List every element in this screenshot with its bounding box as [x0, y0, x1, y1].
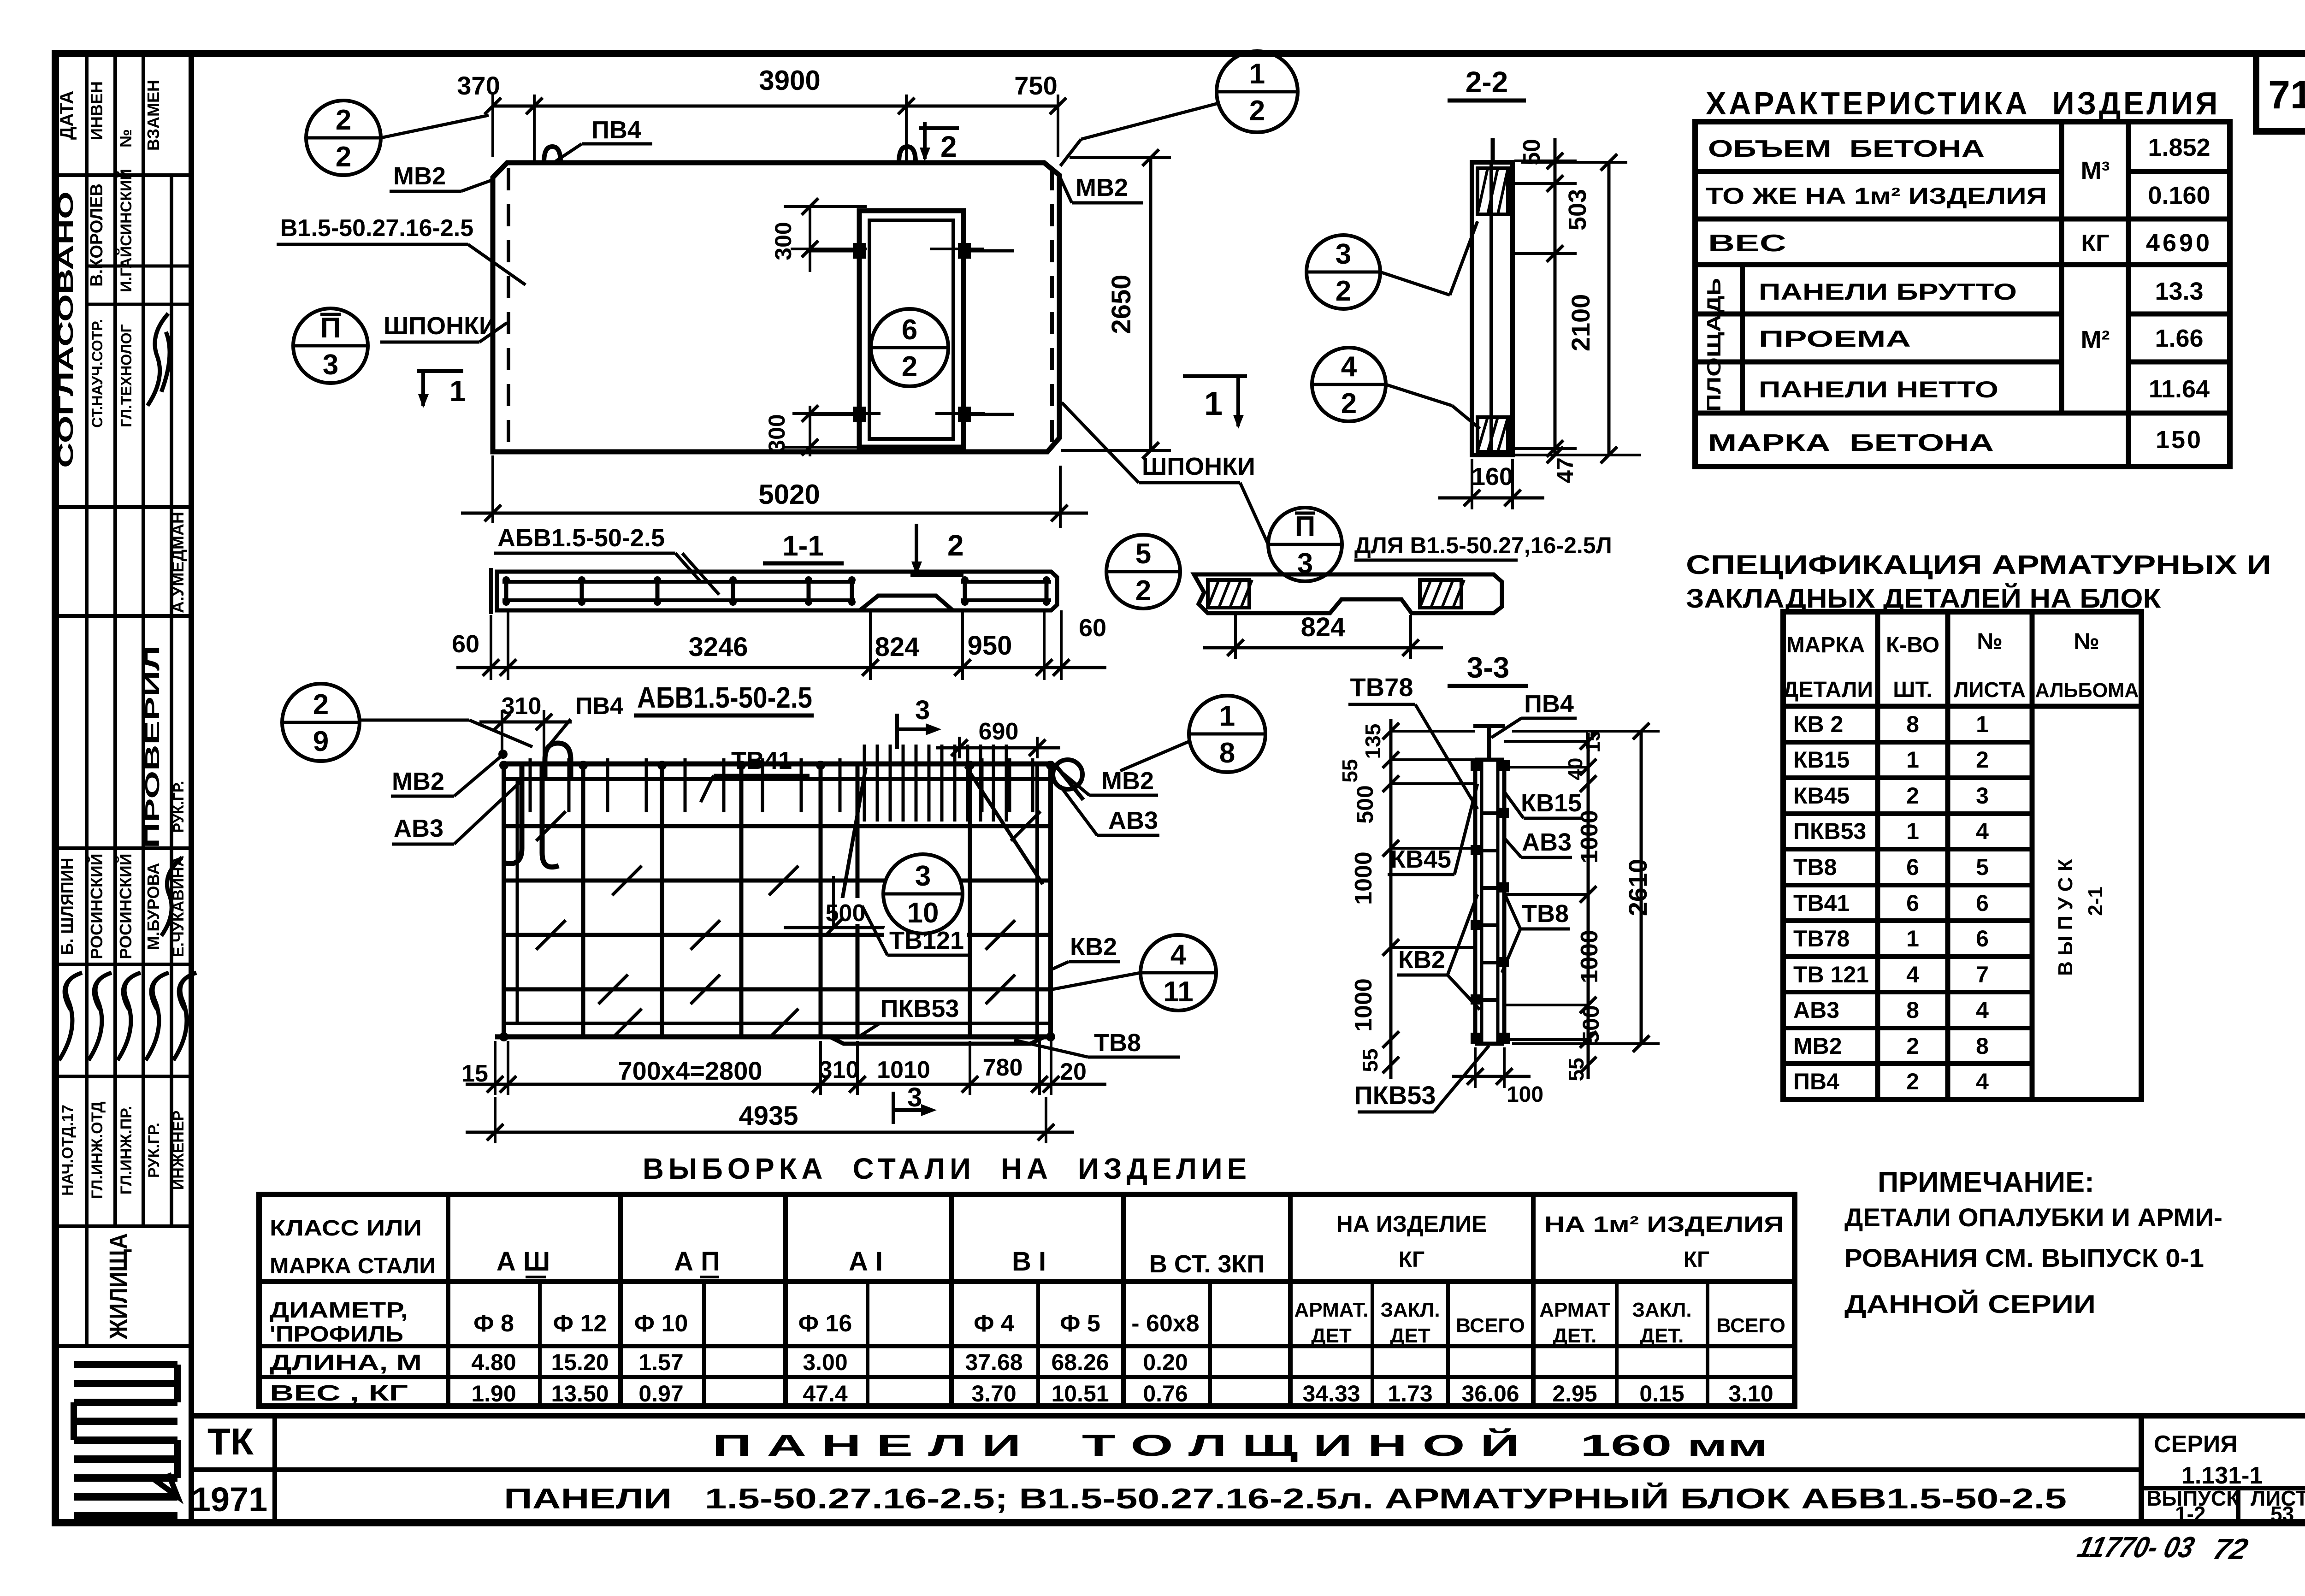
- top comb sparse: [529, 758, 532, 812]
- svg-text:М.БУРОВА: М.БУРОВА: [144, 863, 163, 950]
- svg-text:СТ.НАУЧ.СОТР.: СТ.НАУЧ.СОТР.: [89, 319, 106, 428]
- svg-text:В1.5-50.27.16-2.5: В1.5-50.27.16-2.5: [280, 215, 473, 242]
- callout 4/2: [1312, 348, 1386, 421]
- svg-text:68.26: 68.26: [1051, 1349, 1109, 1375]
- svg-text:15: 15: [1582, 730, 1604, 753]
- svg-text:В СТ. 3КП: В СТ. 3КП: [1149, 1250, 1265, 1278]
- grid bottom dims: [494, 1041, 496, 1095]
- svg-text:780: 780: [983, 1054, 1023, 1081]
- dim 4935: [494, 1097, 496, 1143]
- svg-text:ДАННОЙ СЕРИИ: ДАННОЙ СЕРИИ: [1844, 1289, 2096, 1318]
- label PKV53: [878, 996, 966, 1022]
- svg-text:МАРКА СТАЛИ: МАРКА СТАЛИ: [270, 1254, 436, 1278]
- svg-text:№: №: [1977, 628, 2003, 654]
- svg-text:ПКВ53: ПКВ53: [1793, 818, 1866, 844]
- 2-2 dims right: [1514, 160, 1577, 162]
- svg-text:ВСЕГО: ВСЕГО: [1716, 1314, 1785, 1337]
- 3-3 rungs: [1482, 811, 1498, 815]
- svg-text:ЖИЛИЩА: ЖИЛИЩА: [105, 1233, 132, 1340]
- svg-text:КВ45: КВ45: [1793, 783, 1850, 809]
- svg-text:АРМАТ.: АРМАТ.: [1294, 1299, 1369, 1321]
- svg-text:60: 60: [452, 630, 479, 658]
- svg-text:ПРИМЕЧАНИЕ:: ПРИМЕЧАНИЕ:: [1878, 1166, 2094, 1198]
- table: spetsifikatsiya: [1783, 612, 2141, 1099]
- svg-text:7: 7: [1976, 962, 1989, 987]
- svg-text:0.97: 0.97: [638, 1381, 683, 1407]
- svg-text:2: 2: [1341, 388, 1357, 420]
- svg-text:Б. ШЛЯПИН: Б. ШЛЯПИН: [58, 858, 77, 955]
- signatures row: [59, 973, 82, 1060]
- svg-text:М³: М³: [2081, 157, 2110, 184]
- svg-text:Ф 5: Ф 5: [1060, 1310, 1100, 1337]
- svg-text:АРМАТ: АРМАТ: [1539, 1299, 1610, 1321]
- svg-text:АБВ1.5-50-2.5: АБВ1.5-50-2.5: [497, 524, 665, 552]
- svg-text:ДЕТ.: ДЕТ.: [1553, 1324, 1597, 1347]
- svg-text:1: 1: [1906, 818, 1919, 844]
- svg-text:МВ2: МВ2: [1793, 1033, 1842, 1059]
- comb right sparse: [981, 758, 984, 812]
- svg-text:1.131-1: 1.131-1: [2181, 1462, 2263, 1489]
- svg-text:4: 4: [1341, 351, 1357, 383]
- svg-text:2: 2: [1976, 747, 1989, 773]
- svg-text:3: 3: [907, 1082, 922, 1112]
- keyway dashed line left: [507, 168, 510, 447]
- callout 4/11: [1141, 935, 1216, 1011]
- svg-text:АБВ1.5-50-2.5: АБВ1.5-50-2.5: [637, 681, 812, 714]
- svg-text:ВСЕГО: ВСЕГО: [1456, 1314, 1525, 1337]
- svg-text:10: 10: [907, 897, 939, 929]
- svg-text:2: 2: [1906, 1069, 1919, 1094]
- dim 310 top-left: [501, 710, 503, 758]
- svg-text:Е.ЧУКАВИНА: Е.ЧУКАВИНА: [170, 856, 187, 958]
- svg-text:1000: 1000: [1350, 851, 1377, 905]
- svg-text:СОГЛАСОВАНО: СОГЛАСОВАНО: [53, 191, 77, 468]
- svg-text:2: 2: [336, 141, 351, 173]
- opening anchor marks: [853, 243, 866, 259]
- svg-text:3.10: 3.10: [1728, 1381, 1773, 1407]
- svg-text:150: 150: [2156, 426, 2203, 454]
- svg-text:310: 310: [819, 1057, 859, 1083]
- svg-text:1.66: 1.66: [2155, 325, 2203, 352]
- svg-text:А.УМЕДМАН: А.УМЕДМАН: [168, 512, 187, 613]
- svg-text:2: 2: [1906, 1033, 1919, 1059]
- 3-3 right dims: [1587, 733, 1590, 1079]
- svg-text:А I: А I: [849, 1247, 883, 1277]
- svg-text:ПРОВЕРИЛ: ПРОВЕРИЛ: [141, 645, 164, 848]
- svg-text:П А Н Е Л И Т О Л Щ И Н О Й: П А Н Е Л И Т О Л Щ И Н О Й 160 мм: [712, 1428, 1768, 1462]
- svg-text:1: 1: [1906, 747, 1919, 773]
- svg-text:4: 4: [1976, 1069, 1989, 1094]
- svg-text:ШПОНКИ: ШПОНКИ: [1142, 453, 1255, 480]
- svg-text:370: 370: [457, 71, 500, 100]
- svg-text:700х4=2800: 700х4=2800: [618, 1056, 762, 1085]
- svg-text:ПАНЕЛИ БРУТТО: ПАНЕЛИ БРУТТО: [1759, 279, 2017, 305]
- callout II/3 left: [293, 308, 368, 383]
- svg-text:ДЕТ: ДЕТ: [1311, 1324, 1352, 1347]
- svg-text:20: 20: [1060, 1058, 1087, 1085]
- svg-text:5020: 5020: [758, 479, 820, 510]
- svg-text:П: П: [1295, 511, 1316, 543]
- svg-text:2-2: 2-2: [1466, 65, 1508, 99]
- reinforcement grid chords: [504, 762, 1051, 767]
- svg-text:АЛЬБОМА: АЛЬБОМА: [2035, 679, 2139, 702]
- grid left edge pair: [502, 764, 506, 1037]
- svg-text:КВ15: КВ15: [1521, 789, 1582, 817]
- svg-text:МВ2: МВ2: [1101, 767, 1154, 795]
- svg-text:6: 6: [902, 314, 917, 346]
- hatched embed left: [1208, 580, 1249, 608]
- svg-text:КГ: КГ: [2081, 230, 2109, 257]
- strip posts: [504, 577, 508, 605]
- svg-text:15.20: 15.20: [551, 1349, 609, 1375]
- dim 500 (grid): [823, 898, 874, 924]
- svg-text:НА 1м² ИЗДЕЛИЯ: НА 1м² ИЗДЕЛИЯ: [1544, 1212, 1784, 1237]
- svg-text:500: 500: [826, 900, 866, 927]
- svg-text:500: 500: [1578, 1005, 1604, 1043]
- svg-text:6: 6: [1976, 926, 1989, 952]
- callout 2/2: [306, 100, 381, 175]
- svg-text:13.3: 13.3: [2155, 278, 2203, 305]
- svg-text:1.90: 1.90: [471, 1381, 516, 1407]
- svg-text:1: 1: [1219, 700, 1235, 732]
- vertical dimension 2650: [1070, 156, 1171, 159]
- svg-text:8: 8: [1906, 711, 1919, 737]
- keyway dashed line right: [1050, 168, 1054, 447]
- svg-text:750: 750: [1014, 71, 1057, 100]
- svg-text:ПЛОЩАДЬ: ПЛОЩАДЬ: [1703, 278, 1725, 412]
- table: vyborka stali: [259, 1194, 1795, 1406]
- section mark 2 bottom: [915, 524, 918, 573]
- svg-text:РУК.ГР.: РУК.ГР.: [170, 781, 187, 833]
- section mark 1 left: [417, 369, 463, 373]
- svg-text:824: 824: [1301, 612, 1346, 642]
- svg-text:40: 40: [1564, 758, 1587, 780]
- svg-text:34.33: 34.33: [1302, 1381, 1360, 1407]
- svg-text:4: 4: [1906, 962, 1919, 987]
- svg-text:РОСИНСКИЙ: РОСИНСКИЙ: [87, 853, 106, 959]
- svg-text:950: 950: [968, 631, 1012, 661]
- signatures top: [148, 313, 170, 406]
- svg-text:1: 1: [449, 374, 466, 408]
- svg-text:100: 100: [1507, 1082, 1543, 1107]
- svg-text:10.51: 10.51: [1051, 1381, 1109, 1407]
- dim 2610: [1640, 731, 1643, 1044]
- svg-text:АВ3: АВ3: [394, 815, 443, 842]
- 3-3 column: [1473, 760, 1478, 1044]
- PV4 loop left: [545, 743, 571, 778]
- section mark 2 top: [919, 126, 959, 130]
- svg-text:3: 3: [1976, 783, 1989, 809]
- label TV121: [884, 928, 967, 953]
- svg-text:ТВ41: ТВ41: [1793, 890, 1850, 916]
- svg-text:1-2: 1-2: [2175, 1502, 2205, 1526]
- svg-text:№: №: [2074, 628, 2099, 654]
- svg-text:3.00: 3.00: [803, 1349, 847, 1375]
- svg-text:11770- 03: 11770- 03: [2074, 1531, 2198, 1564]
- svg-text:ДЕТАЛИ: ДЕТАЛИ: [1783, 678, 1873, 702]
- svg-text:4: 4: [1976, 818, 1989, 844]
- callout 1/2 top right: [1217, 51, 1298, 132]
- dimension 824 variant: [1234, 615, 1237, 659]
- variant strip outline: [1194, 574, 1502, 613]
- svg-text:2650: 2650: [1106, 274, 1136, 334]
- bottom dimension 5020: [491, 455, 494, 523]
- svg-text:503: 503: [1564, 189, 1591, 231]
- grid horizontal bars: [504, 824, 1051, 828]
- window opening: [859, 211, 963, 447]
- grid corner dots: [499, 761, 508, 770]
- svg-text:824: 824: [875, 632, 920, 662]
- svg-text:4690: 4690: [2146, 229, 2212, 257]
- section mark 1 right: [1183, 374, 1247, 378]
- strip inner chords: [502, 580, 855, 584]
- svg-text:2.95: 2.95: [1552, 1381, 1597, 1407]
- hatched embed right: [1420, 580, 1461, 608]
- svg-text:300: 300: [770, 222, 796, 260]
- svg-text:И.ГАЙСИНСКИЙ: И.ГАЙСИНСКИЙ: [117, 169, 135, 292]
- svg-text:ГЛ.ИНЖ.ОТД: ГЛ.ИНЖ.ОТД: [89, 1101, 106, 1199]
- svg-text:КВ15: КВ15: [1793, 747, 1850, 773]
- svg-text:135: 135: [1361, 724, 1385, 759]
- svg-text:КВ 2: КВ 2: [1793, 711, 1843, 737]
- svg-text:МАРКА: МАРКА: [1786, 633, 1865, 657]
- svg-text:ПВ4: ПВ4: [1793, 1069, 1839, 1094]
- svg-text:Ф 8: Ф 8: [473, 1310, 514, 1337]
- svg-text:В Ы П У С К: В Ы П У С К: [2054, 859, 2077, 976]
- svg-text:2: 2: [1906, 783, 1919, 809]
- svg-text:37.68: 37.68: [965, 1349, 1022, 1375]
- svg-text:ПАНЕЛИ НЕТТО: ПАНЕЛИ НЕТТО: [1759, 377, 1998, 402]
- svg-text:3: 3: [323, 349, 338, 381]
- svg-text:0.76: 0.76: [1143, 1381, 1188, 1407]
- svg-text:№: №: [116, 129, 135, 148]
- svg-text:ПВ4: ПВ4: [575, 693, 623, 720]
- svg-text:МВ2: МВ2: [392, 768, 444, 795]
- svg-text:'ПРОФИЛЬ: 'ПРОФИЛЬ: [270, 1322, 403, 1347]
- svg-text:МВ2: МВ2: [1076, 174, 1128, 201]
- svg-text:ТВ8: ТВ8: [1522, 900, 1569, 928]
- callout II/3 right: [1268, 508, 1342, 581]
- svg-text:ТО ЖЕ НА 1м² ИЗДЕЛИЯ: ТО ЖЕ НА 1м² ИЗДЕЛИЯ: [1706, 183, 2047, 209]
- svg-text:ТВ 121: ТВ 121: [1793, 962, 1869, 987]
- grid right edge pair: [1048, 764, 1053, 1037]
- section mark 3 bottom: [892, 1092, 895, 1124]
- svg-text:МВ2: МВ2: [393, 162, 446, 190]
- PV4 loop right coil: [1053, 760, 1082, 789]
- svg-text:ТВ41: ТВ41: [731, 747, 792, 774]
- svg-text:Ф 12: Ф 12: [553, 1310, 607, 1337]
- svg-text:АВ3: АВ3: [1793, 997, 1839, 1023]
- svg-text:КГ: КГ: [1399, 1247, 1425, 1272]
- svg-text:ИНВЕН: ИНВЕН: [87, 81, 106, 140]
- left J hooks (AV3): [505, 766, 559, 867]
- svg-text:СЕРИЯ: СЕРИЯ: [2154, 1431, 2238, 1458]
- svg-text:690: 690: [979, 718, 1019, 745]
- svg-text:2: 2: [902, 351, 917, 383]
- svg-text:2: 2: [336, 104, 351, 136]
- svg-text:ТВ8: ТВ8: [1094, 1029, 1141, 1057]
- svg-text:ПВ4: ПВ4: [1524, 690, 1574, 718]
- svg-text:НАЧ.ОТД.17: НАЧ.ОТД.17: [59, 1105, 77, 1196]
- svg-text:3246: 3246: [688, 632, 748, 662]
- svg-text:ШТ.: ШТ.: [1893, 678, 1932, 702]
- svg-text:1000: 1000: [1350, 978, 1377, 1032]
- svg-text:2: 2: [1135, 575, 1151, 607]
- svg-text:АВ3: АВ3: [1108, 807, 1158, 834]
- callout 1/8: [1189, 696, 1265, 772]
- svg-text:4.80: 4.80: [471, 1349, 516, 1375]
- svg-text:3: 3: [915, 695, 930, 725]
- svg-text:0.15: 0.15: [1639, 1381, 1684, 1407]
- svg-text:ДЕТАЛИ ОПАЛУБКИ И АРМИ-: ДЕТАЛИ ОПАЛУБКИ И АРМИ-: [1844, 1203, 2222, 1232]
- svg-text:ПРОЕМА: ПРОЕМА: [1759, 326, 1911, 352]
- svg-text:47: 47: [1552, 457, 1578, 483]
- svg-text:4935: 4935: [739, 1101, 798, 1131]
- weld tick marks: [536, 811, 566, 841]
- 3-3 bottom 100 dim: [1474, 1047, 1477, 1088]
- svg-text:6: 6: [1906, 854, 1919, 880]
- svg-text:5: 5: [1135, 538, 1151, 570]
- svg-text:РОВАНИЯ СМ. ВЫПУСК 0-1: РОВАНИЯ СМ. ВЫПУСК 0-1: [1844, 1243, 2204, 1272]
- svg-text:ПВ4: ПВ4: [591, 116, 641, 144]
- svg-text:ХАРАКТЕРИСТИКА ИЗДЕЛИЯ: ХАРАКТЕРИСТИКА ИЗДЕЛИЯ: [1706, 85, 2220, 121]
- svg-text:2: 2: [1336, 275, 1351, 307]
- svg-text:КВ2: КВ2: [1398, 946, 1445, 974]
- svg-text:1-1: 1-1: [782, 530, 824, 562]
- svg-text:ПКВ53: ПКВ53: [1354, 1081, 1436, 1110]
- svg-text:3: 3: [1336, 238, 1351, 270]
- svg-text:3.70: 3.70: [971, 1381, 1016, 1407]
- svg-text:- 60х8: - 60х8: [1131, 1310, 1199, 1337]
- svg-text:А П: А П: [674, 1247, 720, 1277]
- TsNIIEP logo: [74, 1361, 177, 1368]
- section 2-2 body: [1472, 162, 1513, 455]
- svg-text:1: 1: [1976, 711, 1989, 737]
- window bottom recess: [830, 1037, 1045, 1044]
- title-block sidebar: [189, 53, 194, 1523]
- svg-text:ВЗАМЕН: ВЗАМЕН: [144, 80, 163, 151]
- svg-text:ТК: ТК: [207, 1421, 254, 1463]
- svg-text:3-3: 3-3: [1467, 651, 1510, 684]
- svg-text:1: 1: [1249, 58, 1265, 90]
- svg-text:ДЛИНА, М: ДЛИНА, М: [270, 1351, 422, 1375]
- embed top hatched: [1478, 168, 1508, 214]
- svg-text:1000: 1000: [1576, 930, 1603, 983]
- svg-text:ОБЪЕМ БЕТОНА: ОБЪЕМ БЕТОНА: [1708, 136, 1985, 162]
- svg-text:47.4: 47.4: [803, 1381, 848, 1407]
- svg-text:310: 310: [502, 693, 542, 720]
- svg-text:СПЕЦИФИКАЦИЯ АРМАТУРНЫХ И: СПЕЦИФИКАЦИЯ АРМАТУРНЫХ И: [1686, 550, 2271, 580]
- svg-text:55: 55: [1358, 1048, 1382, 1072]
- svg-text:0.160: 0.160: [2148, 182, 2210, 209]
- svg-text:ТВ78: ТВ78: [1350, 673, 1413, 702]
- callout 6/2: [871, 309, 948, 386]
- svg-text:ТВ8: ТВ8: [1793, 854, 1837, 880]
- dim 2100: [1608, 162, 1611, 455]
- svg-text:М²: М²: [2081, 326, 2110, 354]
- svg-text:ДЕТ: ДЕТ: [1390, 1324, 1430, 1347]
- svg-text:ПАНЕЛИ 1.5-50.27.16-2.5; В1: ПАНЕЛИ 1.5-50.27.16-2.5; В1.5-50.27.16-2…: [504, 1483, 2067, 1515]
- svg-text:ЗАКЛ.: ЗАКЛ.: [1380, 1299, 1440, 1321]
- svg-text:2: 2: [947, 529, 964, 562]
- panel plan view outline: [493, 163, 1059, 452]
- svg-text:8: 8: [1906, 997, 1919, 1023]
- svg-text:8: 8: [1976, 1033, 1989, 1059]
- svg-text:36.06: 36.06: [1461, 1381, 1519, 1407]
- svg-text:1: 1: [1906, 926, 1919, 952]
- svg-text:2100: 2100: [1566, 294, 1595, 352]
- svg-text:ВЕС: ВЕС: [1708, 230, 1786, 257]
- svg-text:В I: В I: [1012, 1247, 1046, 1277]
- grid vertical bars: [581, 764, 585, 1037]
- strip dimension 60/3246/824/950/60: [490, 615, 492, 680]
- svg-text:2: 2: [1249, 95, 1265, 127]
- svg-text:4: 4: [1976, 997, 1989, 1023]
- dim 160: [1471, 459, 1473, 509]
- svg-text:ДАТА: ДАТА: [57, 91, 77, 140]
- svg-text:60: 60: [1079, 614, 1106, 642]
- 3-3 top pin PV4: [1487, 726, 1491, 760]
- svg-text:К-ВО: К-ВО: [1886, 633, 1939, 657]
- svg-text:1: 1: [1204, 385, 1223, 422]
- svg-text:8: 8: [1219, 737, 1235, 769]
- svg-text:Ф 10: Ф 10: [634, 1310, 688, 1337]
- svg-text:ДЕТ.: ДЕТ.: [1640, 1324, 1684, 1347]
- dim 690 top: [958, 737, 961, 758]
- svg-text:5: 5: [1976, 854, 1989, 880]
- svg-text:53: 53: [2270, 1502, 2294, 1526]
- sheet number box 71: [2256, 53, 2305, 131]
- svg-text:ИНЖЕНЕР: ИНЖЕНЕР: [170, 1111, 187, 1190]
- svg-text:15: 15: [461, 1060, 488, 1087]
- svg-text:В.КОРОЛЕВ: В.КОРОЛЕВ: [87, 183, 106, 287]
- top dimension line 370/3900/750: [493, 105, 1058, 108]
- svg-text:АВ3: АВ3: [1522, 828, 1572, 856]
- svg-text:1010: 1010: [877, 1057, 930, 1083]
- svg-text:Ф 4: Ф 4: [974, 1310, 1014, 1337]
- svg-text:2: 2: [940, 130, 957, 163]
- svg-text:2: 2: [313, 689, 329, 721]
- svg-text:11.64: 11.64: [2149, 375, 2210, 403]
- svg-text:300: 300: [764, 414, 790, 452]
- svg-text:55: 55: [1338, 759, 1362, 782]
- svg-text:ГЛ.ТЕХНОЛОГ: ГЛ.ТЕХНОЛОГ: [118, 324, 135, 427]
- svg-text:160: 160: [1472, 463, 1513, 491]
- svg-text:ШПОНКИ: ШПОНКИ: [384, 312, 497, 340]
- section mark 3 top: [895, 714, 899, 749]
- top comb dense: [863, 745, 866, 822]
- svg-text:3900: 3900: [759, 65, 820, 96]
- svg-text:0.20: 0.20: [1143, 1349, 1188, 1375]
- dim 300 bottom at window: [809, 406, 811, 456]
- svg-text:МАРКА БЕТОНА: МАРКА БЕТОНА: [1708, 430, 1994, 456]
- svg-text:ГЛ.ИНЖ.ПР.: ГЛ.ИНЖ.ПР.: [118, 1106, 135, 1194]
- svg-text:ДЛЯ В1.5-50.27,16-2.5Л: ДЛЯ В1.5-50.27,16-2.5Л: [1354, 532, 1612, 558]
- callout 3/10: [883, 854, 963, 934]
- svg-text:ТВ78: ТВ78: [1793, 926, 1850, 952]
- svg-text:1.852: 1.852: [2148, 134, 2210, 161]
- 3-3 node squares: [1471, 760, 1482, 771]
- bottom title block: [191, 1413, 2305, 1419]
- svg-text:КВ2: КВ2: [1070, 933, 1117, 961]
- svg-text:1.57: 1.57: [638, 1349, 683, 1375]
- svg-text:500: 500: [1352, 785, 1378, 823]
- svg-text:Ф 16: Ф 16: [798, 1310, 852, 1337]
- svg-text:71: 71: [2268, 73, 2305, 117]
- svg-text:П: П: [320, 312, 341, 344]
- svg-text:1971: 1971: [192, 1480, 268, 1519]
- 3-3 left dims: [1389, 719, 1393, 1079]
